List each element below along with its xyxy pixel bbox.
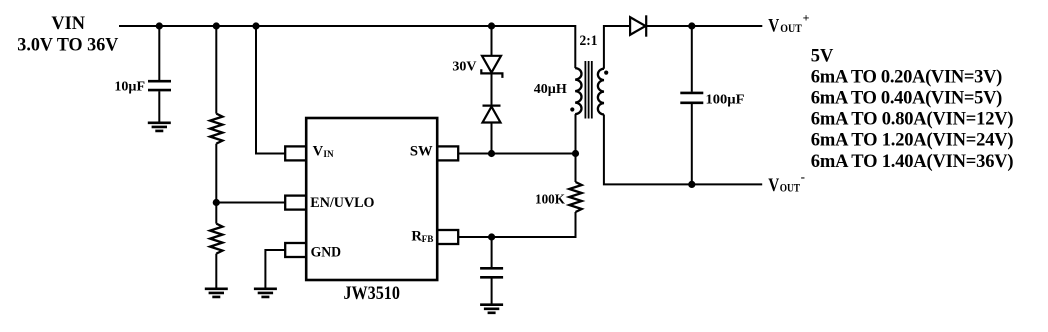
junction RFB cap [488,233,495,240]
svg-text:V: V [768,15,779,36]
svg-text:JW3510: JW3510 [343,283,400,304]
wire output top rail (diode to VOUT+) [646,25,762,27]
svg-text:2:1: 2:1 [580,33,598,49]
wire primary bottom to 100K [575,114,577,182]
svg-text:V: V [768,175,779,196]
transformer phase dot primary [570,107,574,111]
svg-text:GND: GND [311,244,342,260]
junction top rail C1 [156,22,163,29]
wire zener to diode D2 [491,73,493,105]
wire RFB cap branch [491,237,493,267]
svg-text:40µH: 40µH [534,82,567,97]
wire zener branch top [491,26,493,56]
ground G3 [254,289,277,297]
svg-text:IN: IN [323,149,334,159]
wire GND pin to ground [265,250,285,288]
transformer T1 secondary winding [598,69,604,115]
transformer T1 core [585,61,591,119]
svg-text:6mA TO 0.40A(VIN=5V): 6mA TO 0.40A(VIN=5V) [811,89,1003,109]
resistor R1 [210,114,222,144]
svg-text:FB: FB [422,234,434,244]
pin VIN box [285,146,306,160]
junction top rail VIN pin [252,22,259,29]
resistor R2 [210,224,222,254]
junction top rail divider [213,22,220,29]
pin GND box [285,243,306,257]
capacitor C1 10uF branch wire top [158,26,160,80]
ground G4 [480,305,503,313]
pin label RFB [411,229,433,245]
svg-text:VIN: VIN [51,14,85,34]
svg-text:6mA TO 1.40A(VIN=36V): 6mA TO 1.40A(VIN=36V) [811,152,1014,172]
wire output bottom rail [604,115,762,185]
svg-text:OUT: OUT [780,23,802,35]
transformer T1 primary winding [575,68,581,114]
junction output rail cap bottom [688,181,695,188]
svg-text:6mA TO 0.20A(VIN=3V): 6mA TO 0.20A(VIN=3V) [811,67,1003,87]
wire VIN top rail [119,26,575,68]
svg-text:EN/UVLO: EN/UVLO [310,195,374,211]
svg-text:+: + [803,10,810,24]
ground G1 [148,123,171,131]
output spec text block [811,46,1014,172]
junction output rail cap top [688,22,695,29]
wire VIN pin [256,26,285,154]
svg-text:V: V [313,144,324,160]
diode D1 output [630,15,646,36]
svg-text:-: - [801,169,805,184]
wire R1 to R2 [215,144,217,224]
capacitor C1 10uF plates [148,81,171,90]
svg-text:3.0V TO 36V: 3.0V TO 36V [17,36,119,56]
svg-text:6mA TO 0.80A(VIN=12V): 6mA TO 0.80A(VIN=12V) [811,110,1014,130]
wire C3 bottom [691,104,693,184]
node VIN label [17,14,119,56]
junction SW transformer [572,150,579,157]
capacitor C3 plates [680,93,703,103]
node VOUT+ label [768,10,809,36]
wire 100K to RFB [458,212,575,237]
op-amp U1 JW3510 body [306,118,437,280]
capacitor C2 plates [480,268,503,277]
svg-text:SW: SW [410,144,433,160]
wire C2 to ground [491,278,493,304]
svg-text:OUT: OUT [780,183,801,195]
wire divider top [215,26,217,114]
wire D2 to SW [491,123,493,154]
wire output top rail (secondary to diode) [604,26,630,69]
wire EN junction to pin [216,202,285,204]
pin SW box [437,146,458,160]
junction SW zener [488,150,495,157]
svg-text:6mA TO 1.20A(VIN=24V): 6mA TO 1.20A(VIN=24V) [811,131,1014,151]
pin label VIN [313,144,334,160]
svg-text:100K: 100K [535,193,565,208]
transformer phase dot secondary [604,71,608,75]
ground G2 [205,289,228,297]
wire R2 to ground [215,254,217,288]
wire C1 to ground [158,91,160,122]
junction EN divider [213,199,220,206]
svg-text:30V: 30V [452,60,476,75]
junction top rail zener [488,22,495,29]
node VOUT- label [768,169,805,196]
pin RFB box [437,230,458,244]
svg-text:5V: 5V [811,46,834,66]
diode D2 [483,106,501,123]
wire SW to transformer [458,153,575,155]
svg-text:100µF: 100µF [706,93,745,108]
capacitor C3 100uF branch top [691,26,693,92]
pin EN/UVLO box [285,196,306,210]
zener Z1 30V [481,56,502,78]
svg-text:10µF: 10µF [114,79,145,94]
resistor R3 100K [569,182,581,212]
